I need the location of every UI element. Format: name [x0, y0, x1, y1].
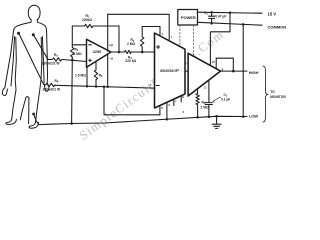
- svg-text:1.5 MΩ: 1.5 MΩ: [75, 74, 86, 78]
- op-amp A2: [188, 53, 220, 96]
- svg-text:220kΩ: 220kΩ: [82, 18, 92, 22]
- node R3/R4: [141, 51, 144, 54]
- svg-text:7: 7: [150, 83, 152, 87]
- node output/feedback: [118, 51, 121, 54]
- svg-text:POWER: POWER: [181, 15, 196, 20]
- pin stub A1 bottom 4: [180, 96, 182, 102]
- svg-text:COMMON: COMMON: [268, 24, 287, 29]
- +15 tap down to A2 pin 15: [229, 11, 232, 14]
- brace to monitor: [263, 66, 268, 122]
- svg-text:330 kΩ/2 W: 330 kΩ/2 W: [42, 62, 61, 66]
- wire R3 top to A1 top pin: [142, 27, 160, 36]
- node -V on R8 line: [106, 86, 109, 89]
- wire electrode E2 to R8: [19, 34, 43, 84]
- svg-text:6: 6: [161, 106, 163, 110]
- electrode E2 (left chest): [17, 32, 20, 35]
- svg-text:−V: −V: [109, 57, 114, 61]
- svg-text:11: 11: [176, 68, 179, 72]
- resistor R3 2M: [141, 27, 144, 53]
- resistor R5 1.5M below U1: [94, 61, 97, 86]
- wire R2 node up to R1: [71, 26, 73, 45]
- svg-text:9: 9: [182, 95, 184, 99]
- electrode E1 (right chest): [32, 33, 35, 36]
- node rail/R2 branch: [70, 122, 73, 125]
- svg-text:2 MΩ: 2 MΩ: [127, 42, 135, 46]
- svg-text:8B3056/G: 8B3056/G: [160, 69, 177, 73]
- svg-text:7: 7: [175, 100, 177, 104]
- feedback loop wire (A1 pin to R8 line): [104, 87, 160, 115]
- feedback loop A2: [216, 58, 233, 71]
- watermark: [77, 27, 228, 143]
- electrode E3 (leg): [32, 113, 35, 116]
- wire R2 top to U1 inverting input: [72, 44, 86, 46]
- svg-text:R8: R8: [55, 79, 59, 84]
- node R5 bottom: [95, 85, 98, 88]
- svg-text:4250: 4250: [93, 49, 103, 54]
- POWER box: [178, 10, 198, 26]
- common rail (bottom wire): [72, 116, 247, 123]
- wire U1 output: [111, 51, 125, 53]
- svg-text:HIGH: HIGH: [249, 70, 259, 75]
- 15V line: [197, 12, 262, 13]
- svg-text:R7: R7: [54, 53, 58, 58]
- svg-text:220 kΩ: 220 kΩ: [125, 59, 136, 63]
- capacitor C2 0.1uF: [205, 80, 212, 116]
- dashed supply line to A2: [193, 25, 195, 55]
- pin stub U1 bottom corner down to R8 line: [86, 67, 88, 86]
- svg-text:330 kΩ/1 W: 330 kΩ/1 W: [43, 87, 62, 91]
- ground symbol: [212, 116, 221, 128]
- svg-text:+V: +V: [109, 43, 114, 47]
- svg-text:R5: R5: [99, 74, 103, 79]
- capacitor C1 0.47uF: [209, 12, 215, 23]
- +V stub of U1 up to +V wire: [107, 14, 109, 51]
- wire A1 output to A2 input: [185, 70, 188, 72]
- wire R7 to op-amp U1 + input: [63, 60, 87, 62]
- COMMON line: [197, 22, 262, 25]
- svg-text:0.47 μF: 0.47 μF: [215, 14, 226, 18]
- wire A2 output to HIGH: [221, 70, 248, 72]
- wire R8 to A1 inverting input pin 7: [56, 85, 155, 88]
- wire R1 right down to U1 output: [118, 26, 120, 52]
- resistor R1 220k feedback: [72, 24, 119, 27]
- +V wire over to A1 top pin: [108, 14, 170, 41]
- pin stub A1 bottom 1 (to loop): [159, 106, 161, 115]
- svg-text:4: 4: [162, 32, 164, 36]
- wire electrode E1 to R7: [34, 36, 48, 60]
- svg-text:2 MΩ: 2 MΩ: [201, 105, 209, 109]
- resistor R2 (vertical 2M): [71, 45, 74, 60]
- pin stub A1 bottom 2 (to rail): [166, 102, 168, 119]
- resistor R8: [44, 83, 56, 86]
- svg-text:1: 1: [171, 35, 173, 39]
- wire leg electrode to common rail: [34, 115, 72, 124]
- svg-text:0.1 μF: 0.1 μF: [221, 97, 230, 101]
- svg-text:2 MΩ: 2 MΩ: [74, 52, 82, 56]
- wire node A down to rail: [71, 60, 74, 124]
- svg-text:TO: TO: [270, 90, 275, 94]
- op-amp A1 8B3056/G (trapezoid): [155, 33, 186, 108]
- node A: [71, 59, 74, 62]
- svg-text:2: 2: [183, 110, 185, 114]
- resistor R4 220k: [125, 50, 132, 53]
- resistor R7: [48, 58, 63, 61]
- resistor R6 2M: [196, 89, 199, 118]
- wire R4 to A1 + input pin 6: [131, 51, 155, 53]
- svg-text:15 V: 15 V: [268, 11, 277, 16]
- svg-text:3: 3: [168, 103, 170, 107]
- svg-text:MONITOR: MONITOR: [270, 95, 286, 99]
- svg-text:15: 15: [212, 60, 216, 64]
- dashed supply line to A1: [179, 25, 181, 46]
- pin stub A1 bottom 3: [173, 99, 175, 105]
- svg-text:LOW: LOW: [249, 113, 258, 118]
- patient body figure: [2, 5, 49, 128]
- svg-text:13: 13: [204, 85, 208, 89]
- COMMON down wire: [242, 23, 245, 26]
- -V stub of U1 down to R8 line: [107, 54, 109, 87]
- op-amp U1 4250: [87, 39, 112, 67]
